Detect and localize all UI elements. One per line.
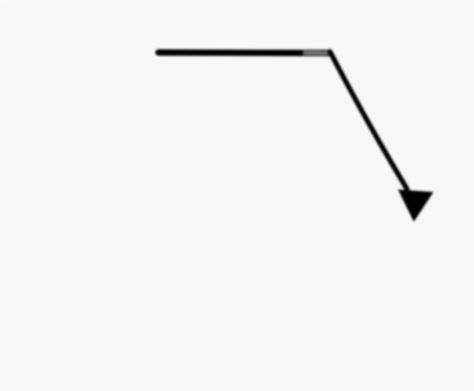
wire diagonal segment xyxy=(330,52,407,189)
arrowhead xyxy=(398,190,434,222)
top-left corner highlight xyxy=(0,0,1,1)
wire horizontal segment xyxy=(159,49,330,56)
wire fade segment xyxy=(303,51,328,56)
